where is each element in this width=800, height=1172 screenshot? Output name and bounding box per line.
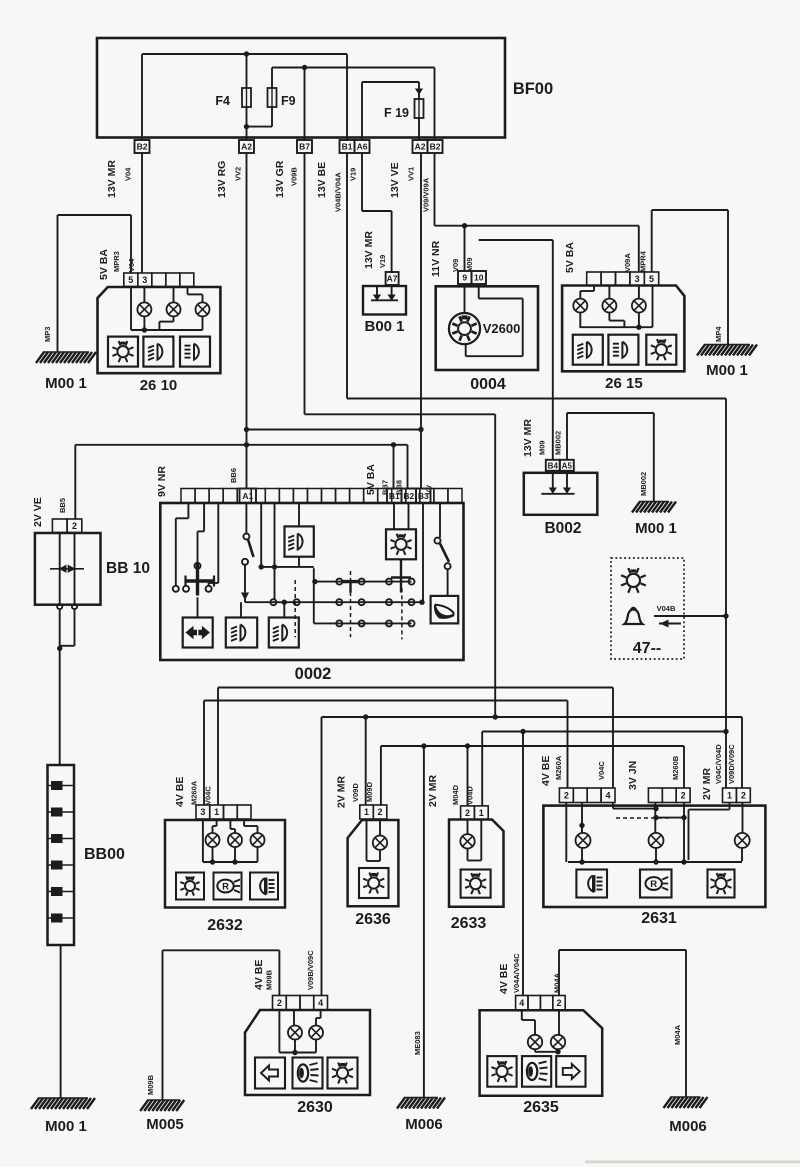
- svg-text:3V JN: 3V JN: [627, 761, 639, 790]
- svg-text:M006: M006: [669, 1118, 707, 1135]
- svg-text:M260A: M260A: [554, 755, 563, 780]
- svg-text:4V BE: 4V BE: [174, 777, 186, 807]
- svg-text:B2: B2: [137, 142, 148, 152]
- svg-text:M04D: M04D: [451, 784, 460, 805]
- svg-text:2631: 2631: [641, 910, 677, 927]
- svg-text:V04C/V04D: V04C/V04D: [714, 744, 723, 784]
- svg-text:V09D/V09C: V09D/V09C: [727, 744, 736, 784]
- svg-text:B1: B1: [389, 491, 400, 501]
- svg-text:M00 1: M00 1: [635, 520, 677, 537]
- svg-text:B4: B4: [548, 461, 559, 470]
- svg-text:2: 2: [564, 790, 569, 800]
- svg-text:V2600: V2600: [483, 321, 521, 336]
- svg-text:F4: F4: [215, 94, 230, 108]
- svg-text:2633: 2633: [451, 915, 487, 932]
- svg-text:13V MR: 13V MR: [106, 160, 118, 198]
- svg-text:M09D: M09D: [365, 781, 374, 802]
- svg-text:M04A: M04A: [553, 972, 562, 993]
- svg-text:B2: B2: [430, 142, 441, 152]
- svg-text:2V VE: 2V VE: [32, 497, 44, 527]
- svg-text:M005: M005: [146, 1116, 184, 1133]
- svg-text:V19: V19: [378, 255, 387, 268]
- svg-text:9: 9: [462, 273, 467, 283]
- svg-text:4V BE: 4V BE: [253, 960, 265, 990]
- svg-text:M09B: M09B: [146, 1074, 155, 1095]
- svg-text:B1: B1: [342, 142, 353, 152]
- svg-text:2V MR: 2V MR: [701, 767, 713, 800]
- svg-text:A6: A6: [357, 142, 368, 152]
- svg-text:MPR3: MPR3: [112, 251, 121, 272]
- svg-text:2636: 2636: [355, 911, 391, 928]
- svg-text:13V MR: 13V MR: [363, 231, 375, 269]
- svg-text:11V NR: 11V NR: [430, 240, 442, 277]
- svg-text:V04C: V04C: [204, 786, 213, 805]
- svg-text:13V VE: 13V VE: [389, 162, 401, 198]
- svg-text:26 15: 26 15: [605, 375, 643, 392]
- svg-text:5: 5: [128, 275, 133, 285]
- svg-text:1: 1: [479, 808, 484, 818]
- svg-text:2: 2: [556, 998, 561, 1008]
- svg-text:A2: A2: [415, 142, 426, 152]
- svg-text:V09D: V09D: [351, 783, 360, 802]
- svg-text:ME083: ME083: [413, 1031, 422, 1055]
- svg-text:M260B: M260B: [671, 755, 680, 780]
- svg-text:2V MR: 2V MR: [427, 774, 439, 807]
- svg-text:13V BE: 13V BE: [316, 162, 328, 198]
- svg-text:M00 1: M00 1: [45, 1118, 87, 1135]
- svg-text:V09A: V09A: [623, 253, 632, 272]
- svg-text:M00 1: M00 1: [45, 375, 87, 392]
- svg-text:2: 2: [741, 790, 746, 800]
- svg-text:BB5: BB5: [58, 498, 67, 513]
- svg-text:13V MR: 13V MR: [522, 419, 534, 457]
- svg-text:M260A: M260A: [190, 780, 199, 805]
- svg-text:BF00: BF00: [513, 80, 553, 98]
- svg-text:3: 3: [142, 275, 147, 285]
- svg-text:47--: 47--: [633, 640, 661, 657]
- svg-text:26 10: 26 10: [140, 377, 178, 394]
- svg-text:2: 2: [72, 521, 77, 531]
- svg-text:2630: 2630: [297, 1099, 333, 1116]
- svg-text:MPR4: MPR4: [639, 250, 648, 272]
- svg-text:BB00: BB00: [84, 846, 125, 863]
- svg-text:2: 2: [465, 808, 470, 818]
- svg-text:4V BE: 4V BE: [498, 964, 510, 994]
- svg-text:VV1: VV1: [407, 167, 416, 181]
- svg-text:V09B: V09B: [290, 167, 299, 186]
- svg-text:B00 1: B00 1: [364, 318, 404, 335]
- svg-text:MB002: MB002: [639, 472, 648, 496]
- svg-text:4V BE: 4V BE: [540, 756, 552, 786]
- svg-text:B002: B002: [544, 520, 581, 537]
- svg-text:V04: V04: [127, 258, 136, 272]
- svg-text:F 19: F 19: [384, 106, 409, 120]
- svg-text:1: 1: [727, 790, 732, 800]
- svg-text:B3: B3: [418, 491, 429, 501]
- svg-text:V04A/V04C: V04A/V04C: [512, 953, 521, 993]
- svg-text:B2: B2: [403, 491, 414, 501]
- svg-text:V09: V09: [451, 259, 460, 272]
- svg-text:4: 4: [606, 790, 611, 800]
- svg-text:VV2: VV2: [234, 167, 243, 181]
- svg-text:2632: 2632: [207, 917, 243, 934]
- svg-text:2: 2: [277, 998, 282, 1008]
- svg-text:M00 1: M00 1: [706, 362, 748, 379]
- svg-text:BB 10: BB 10: [106, 560, 150, 577]
- svg-text:V04D: V04D: [466, 786, 475, 805]
- svg-text:MP3: MP3: [43, 327, 52, 342]
- svg-text:A5: A5: [562, 461, 573, 470]
- svg-text:4: 4: [318, 998, 323, 1008]
- svg-text:B7: B7: [299, 142, 310, 152]
- svg-text:3: 3: [200, 807, 205, 817]
- svg-text:5V BA: 5V BA: [564, 242, 576, 273]
- svg-text:MP4: MP4: [714, 326, 723, 342]
- svg-text:5V BA: 5V BA: [365, 464, 377, 495]
- svg-text:MB002: MB002: [554, 431, 563, 455]
- svg-text:A2: A2: [241, 142, 252, 152]
- svg-text:M09B: M09B: [265, 969, 274, 990]
- svg-text:2: 2: [681, 790, 686, 800]
- svg-text:V09/V09A: V09/V09A: [422, 177, 431, 212]
- svg-text:1: 1: [214, 807, 219, 817]
- svg-text:2: 2: [378, 807, 383, 817]
- svg-text:V04B: V04B: [657, 604, 676, 613]
- svg-text:M04A: M04A: [673, 1024, 682, 1045]
- svg-text:R: R: [222, 881, 229, 892]
- svg-text:5: 5: [649, 274, 654, 284]
- svg-text:M09: M09: [465, 257, 474, 272]
- svg-text:M006: M006: [405, 1116, 443, 1133]
- svg-text:0002: 0002: [295, 665, 332, 683]
- svg-text:V19: V19: [349, 168, 358, 181]
- svg-text:A1: A1: [242, 491, 253, 501]
- svg-text:9V NR: 9V NR: [156, 466, 168, 497]
- svg-text:BB6: BB6: [229, 468, 238, 483]
- svg-text:M09: M09: [538, 440, 547, 455]
- svg-text:V09B/V09C: V09B/V09C: [306, 950, 315, 990]
- svg-text:V04: V04: [124, 167, 133, 181]
- svg-text:A7: A7: [387, 274, 398, 284]
- svg-text:V04B/V04A: V04B/V04A: [334, 172, 343, 212]
- svg-text:13V GR: 13V GR: [274, 160, 286, 198]
- svg-text:2V MR: 2V MR: [336, 775, 348, 808]
- svg-text:1: 1: [364, 807, 369, 817]
- svg-text:3: 3: [635, 274, 640, 284]
- svg-text:2635: 2635: [523, 1099, 559, 1116]
- svg-text:F9: F9: [281, 94, 296, 108]
- svg-text:13V RG: 13V RG: [216, 161, 228, 198]
- svg-text:0004: 0004: [470, 376, 506, 393]
- svg-text:5V BA: 5V BA: [98, 249, 110, 280]
- svg-text:10: 10: [474, 273, 484, 283]
- svg-text:4: 4: [519, 998, 524, 1008]
- svg-text:R: R: [650, 879, 657, 890]
- svg-text:V04C: V04C: [597, 761, 606, 780]
